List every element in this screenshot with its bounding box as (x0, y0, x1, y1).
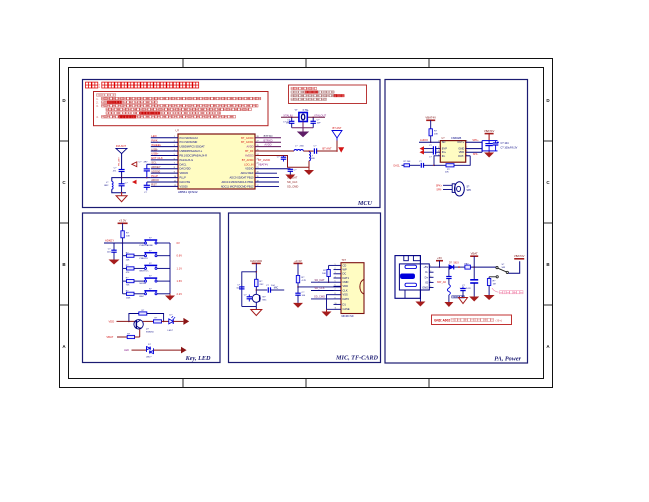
net SD_CMD tf (311, 295, 334, 299)
capacitor C-mic2 (244, 294, 252, 301)
no-erc inp (420, 150, 425, 155)
svg-text:VDD33: VDD33 (180, 171, 189, 175)
wire LDO cap (255, 168, 290, 171)
resistor R-vbat (127, 329, 140, 338)
wire mic out2 (271, 287, 285, 290)
svg-text:0V: 0V (177, 241, 180, 245)
svg-text:BTRXD: BTRXD (263, 138, 272, 142)
wire to BT antenna (317, 141, 338, 152)
svg-text:OUT+: OUT+ (457, 140, 464, 144)
svg-text:15P: 15P (317, 123, 321, 125)
svg-text:BTTXD: BTTXD (264, 134, 273, 138)
svg-text:SD_CLK: SD_CLK (287, 180, 298, 184)
tf pins (334, 263, 350, 311)
svg-text:PLAY PAUSE: PLAY PAUSE (140, 244, 154, 247)
svg-text:1: 1 (174, 136, 175, 138)
svg-text:MCU: MCU (357, 200, 373, 207)
svg-text:LED?: LED? (146, 356, 152, 358)
svg-text:CASE: CASE (343, 307, 350, 311)
capacitor C-in (419, 161, 424, 168)
svg-text:CS8002B: CS8002B (451, 137, 462, 140)
svg-text:PB.1/SDC3/PA5/AUX-R: PB.1/SDC3/PA5/AUX-R (180, 153, 208, 157)
svg-text:9: 9 (335, 297, 336, 299)
base loop resistor (129, 310, 164, 322)
svg-text:12: 12 (174, 185, 176, 187)
svg-text:USBDM/PC5 SD/DAT: USBDM/PC5 SD/DAT (180, 145, 206, 149)
key switch S1 row (123, 238, 180, 248)
svg-text:PC3 SD/SCLK2: PC3 SD/SCLK2 (180, 136, 199, 140)
svg-text:1.6V: 1.6V (177, 279, 183, 283)
ground ldo (285, 175, 295, 180)
svg-text:MIC: MIC (274, 287, 279, 290)
svg-text:11: 11 (335, 308, 337, 310)
wire out gnd rail (466, 142, 482, 152)
svg-text:MIC, TF-CARD: MIC, TF-CARD (335, 355, 378, 362)
svg-text:REC: REC (140, 296, 145, 298)
net VBAT q (106, 335, 127, 339)
capacitor C-micout (266, 285, 275, 293)
svg-text:5: 5 (174, 154, 175, 156)
wire fm main (121, 177, 151, 179)
svg-text:BAT_AD: BAT_AD (437, 281, 446, 284)
resistor R-adkey (121, 231, 131, 238)
svg-text:22K: 22K (126, 259, 130, 261)
svg-text:TF?: TF? (342, 258, 347, 262)
note title text (86, 82, 199, 89)
section box MIC TF-CARD (229, 213, 381, 363)
net XTALOUT (308, 113, 327, 118)
net pa in (394, 164, 405, 167)
svg-text:BT_GIO01: BT_GIO01 (241, 140, 254, 144)
ground key bus (165, 294, 175, 301)
wire out+ spk (466, 139, 482, 142)
svg-text:4: 4 (335, 276, 336, 278)
key switch S2 row (123, 250, 183, 261)
svg-text:SPK+: SPK+ (436, 184, 443, 187)
svg-text:DACL: DACL (180, 162, 187, 166)
wire mic left rail (242, 272, 256, 307)
svg-text:110K: 110K (126, 297, 131, 299)
resistor R-cd (322, 270, 330, 277)
svg-text:2.: 2. (96, 100, 98, 104)
svg-text:5819: 5819 (454, 262, 460, 264)
net LED label (124, 349, 146, 352)
wire fm loop2 (112, 189, 126, 193)
svg-text:XTALIN: XTALIN (283, 113, 292, 117)
inductor L1 (294, 146, 304, 151)
svg-text:( B+): ( B+) (496, 319, 503, 323)
note box BT (289, 85, 367, 104)
svg-text:NEXT/V+: NEXT/V+ (140, 271, 150, 273)
svg-text:X,TAL: X,TAL (303, 109, 310, 112)
resistor R-tf (296, 276, 306, 283)
svg-text:20K: 20K (445, 172, 449, 174)
svg-text:6: 6 (174, 158, 175, 160)
ground mic (251, 310, 262, 316)
capacitor C-xtal2 (311, 117, 322, 128)
svg-text:SD_DAT: SD_DAT (287, 176, 298, 180)
wire 3v3 down (297, 263, 299, 275)
svg-text:BT_RF: BT_RF (245, 149, 254, 153)
wire AVSS (255, 155, 309, 167)
wire tf gnd (327, 295, 334, 312)
tf part name (342, 315, 354, 318)
svg-text:XTALOUT: XTALOUT (314, 113, 327, 117)
svg-text:SPK-: SPK- (436, 189, 442, 192)
wire pa sd (430, 136, 432, 143)
ground fuse (444, 295, 453, 307)
svg-text:20K: 20K (434, 134, 438, 136)
svg-text:8: 8 (174, 167, 175, 169)
wire led out (173, 320, 183, 322)
svg-text:MODE: MODE (140, 283, 147, 285)
svg-text:ADC13 MICN/SDCLK PB11: ADC13 MICN/SDCLK PB11 (222, 180, 255, 184)
port arrow led2 (181, 347, 187, 354)
ground hollow usb (459, 298, 468, 304)
wire vbat stem (473, 256, 475, 267)
net XTALIN (281, 113, 299, 118)
svg-text:USBDP/PA4/AUX-L: USBDP/PA4/AUX-L (180, 149, 203, 153)
wire 5v (434, 261, 449, 268)
svg-text::: : (98, 84, 100, 90)
svg-text:10K: 10K (322, 273, 326, 275)
svg-text:ADC11 MICP/SDCMD PB12: ADC11 MICP/SDCMD PB12 (221, 184, 254, 188)
ferrite FB1 (465, 263, 471, 269)
svg-text:11: 11 (174, 180, 176, 182)
svg-text:VDD: VDD (109, 320, 115, 324)
svg-text:LED?: LED? (168, 330, 174, 332)
svg-text:WP: WP (343, 268, 347, 272)
svg-text:DACVDD: DACVDD (250, 259, 262, 263)
wire key bus left (122, 243, 124, 294)
svg-text:GND: GND (422, 286, 428, 290)
led pair D2 (146, 344, 154, 359)
svg-text:VBAT4V: VBAT4V (484, 129, 495, 133)
svg-text:AVDD: AVDD (246, 145, 253, 149)
net ADKEY (104, 239, 123, 243)
mcu U1 designator (176, 128, 180, 132)
ground tf (322, 312, 332, 317)
svg-text:+5V: +5V (437, 256, 442, 260)
wire audio in (419, 139, 440, 142)
net label BT ANT (322, 147, 332, 151)
svg-text:PA, Power: PA, Power (494, 356, 521, 363)
svg-text:PWK: PWK (151, 138, 158, 142)
svg-text:BT_AVDD: BT_AVDD (242, 158, 254, 162)
svg-text:ADKEY: ADKEY (151, 165, 161, 169)
svg-text:D1: D1 (343, 302, 347, 306)
cap vbat labels (460, 285, 472, 290)
wire led pair out (154, 349, 182, 351)
wire out- spk (466, 153, 479, 156)
svg-text:2: 2 (335, 268, 336, 270)
svg-text:CMD: CMD (343, 280, 349, 284)
svg-text:3.: 3. (96, 104, 98, 108)
svg-text:VDD: VDD (459, 150, 465, 154)
svg-text:FM_ANT: FM_ANT (118, 157, 121, 166)
svg-text:3: 3 (174, 145, 175, 147)
power DACVDD (250, 259, 262, 264)
svg-text:GND:: GND: (434, 319, 442, 323)
svg-text:AVDD3: AVDD3 (245, 153, 254, 157)
crystal Y1 labels (295, 109, 310, 112)
antenna FM (116, 148, 127, 169)
svg-text:5: 5 (335, 281, 336, 283)
svg-text:4.7K: 4.7K (302, 280, 307, 282)
svg-text:IN-: IN- (442, 154, 446, 158)
svg-text:VBAT4V: VBAT4V (425, 116, 436, 120)
usb pin contacts (401, 265, 417, 286)
wire BT_RF (255, 150, 294, 152)
net FM ANT (116, 144, 127, 148)
wire mic bottom (242, 302, 256, 309)
svg-text:7: 7 (174, 163, 175, 165)
resistor R-batdet (487, 279, 496, 296)
svg-text:MICRO SD: MICRO SD (342, 315, 354, 318)
capacitor C-fm2 (139, 162, 150, 178)
svg-text:PC4 SD/SCMD: PC4 SD/SCMD (180, 140, 198, 144)
svg-text:ADC9 SD/DAT PB10: ADC9 SD/DAT PB10 (230, 176, 255, 180)
wire fm row11 (147, 181, 151, 183)
wire res-junction (122, 238, 124, 244)
svg-text:2: 2 (430, 271, 431, 273)
svg-text:1: 1 (335, 264, 336, 266)
svg-text:SD_CMD: SD_CMD (314, 295, 325, 299)
power VBAT4V pa2 (484, 129, 495, 134)
capacitor C-xtal1 (286, 117, 294, 128)
svg-text:LDO_IN: LDO_IN (244, 162, 253, 166)
no-erc byp (420, 146, 425, 151)
ground fm (116, 193, 127, 202)
svg-text:FM ANT: FM ANT (116, 144, 127, 148)
svg-text:1M: 1M (493, 284, 496, 286)
svg-text:BT_AVDD: BT_AVDD (258, 158, 270, 162)
svg-text:BT ANT: BT ANT (332, 126, 341, 130)
usb pin stubs (422, 265, 433, 289)
section label MIC TF-CARD (335, 355, 378, 362)
resistor R-led (143, 317, 169, 323)
wire fb-sw (470, 266, 496, 268)
svg-text:ADC0: ADC0 (151, 178, 159, 182)
wire in series (410, 164, 421, 166)
svg-text:GND: GND (458, 147, 464, 151)
net SD_CLK tf (311, 286, 334, 290)
svg-text:SD_CMD: SD_CMD (287, 184, 298, 188)
capacitor C-rf series (314, 146, 318, 154)
svg-text:1.1V: 1.1V (177, 266, 183, 270)
svg-text:10: 10 (335, 303, 337, 305)
svg-text:15P: 15P (286, 123, 290, 125)
usb J2 outer (395, 256, 420, 299)
svg-text:1.: 1. (96, 97, 98, 101)
svg-text:VDD: VDD (343, 284, 349, 288)
capacitor C-vbat big (470, 267, 478, 296)
capacitor C-pa2 (493, 141, 499, 151)
ground pa caps (484, 153, 494, 158)
pa U2 pin names (438, 140, 467, 158)
capacitor C-adkey (107, 243, 117, 260)
svg-text:10: 10 (174, 176, 176, 178)
speaker wires (436, 184, 452, 191)
wire net AVDD (255, 143, 281, 147)
svg-text:75K: 75K (126, 285, 130, 287)
section label Key LED (185, 355, 211, 362)
antenna BT (332, 126, 342, 141)
section label PA Power (494, 356, 521, 363)
pa cap labels (501, 142, 518, 149)
tf designator (342, 258, 347, 262)
inductor L2 shunt (309, 152, 315, 161)
svg-text:IN+: IN+ (442, 150, 447, 154)
wire sw to flag (508, 261, 519, 273)
svg-text:AVDD: AVDD (264, 143, 271, 147)
wire key bus right (169, 243, 171, 294)
svg-text:OUT-: OUT- (458, 154, 464, 158)
wire fm loop (112, 178, 122, 182)
svg-text:MIC: MIC (263, 299, 267, 301)
svg-text:2: 2 (174, 141, 175, 143)
svg-text:7: 7 (335, 289, 336, 291)
svg-text:DACVDD: DACVDD (180, 167, 191, 171)
mcu U1 pins and labels (151, 134, 259, 188)
capacitor C-tf (295, 287, 306, 303)
speaker SP1 (452, 182, 471, 196)
svg-text:WHEEL: WHEEL (151, 143, 161, 147)
svg-text:VBAT4V: VBAT4V (258, 162, 268, 166)
capacitor C-inp (424, 150, 440, 159)
svg-text:SPK+: SPK+ (472, 139, 479, 142)
svg-text:A602: A602 (443, 319, 451, 323)
svg-text:+3.3V: +3.3V (294, 259, 302, 263)
wire net BTTXD (255, 134, 281, 138)
capacitor C-pa1 (485, 141, 493, 151)
svg-text:SD_DAT: SD_DAT (314, 278, 324, 282)
svg-text:4: 4 (174, 149, 175, 151)
wire adc-ref (255, 172, 277, 174)
svg-text:VSS: VSS (343, 293, 348, 297)
svg-text:RST: RST (151, 183, 157, 187)
svg-text:ADC2 REF: ADC2 REF (241, 171, 254, 175)
svg-text:SCL: SCL (151, 161, 157, 165)
svg-text:DC: DC (343, 272, 347, 276)
wire pa pwr (430, 120, 432, 129)
pa U2 body (440, 141, 465, 163)
power VBAT flag (470, 252, 478, 257)
svg-text:D+: D+ (425, 275, 429, 279)
svg-text:VDDIO: VDDIO (245, 167, 253, 171)
usb shell ground (405, 290, 425, 307)
svg-text:AUDIO: AUDIO (420, 139, 428, 142)
led LED1 (168, 314, 176, 331)
svg-text:USB-: USB- (151, 147, 158, 151)
net VBAT4V (258, 162, 268, 166)
wire in to pin (424, 156, 441, 166)
no-erc marker (338, 147, 344, 152)
svg-text:BT ANT: BT ANT (322, 147, 332, 151)
mcu U1 part name (178, 190, 198, 194)
wire mic out (256, 289, 267, 291)
svg-text:R? 20K: R? 20K (404, 161, 412, 163)
net BT_AVDD (258, 158, 270, 162)
svg-text:1: 1 (438, 141, 439, 143)
svg-text:47K: 47K (126, 272, 130, 274)
resistor R-fb (434, 156, 470, 174)
key switch S3 row (123, 263, 183, 274)
wire dacvdd down (255, 263, 257, 279)
key switch S4 row (123, 276, 183, 287)
svg-text:AB561 QFN32: AB561 QFN32 (178, 190, 198, 194)
svg-text:0.6V: 0.6V (177, 254, 183, 258)
wire pwr-res (122, 223, 124, 231)
battery annotation (492, 288, 523, 294)
pa U2 labels (442, 137, 462, 140)
svg-text:C? 100uF/6.3V: C? 100uF/6.3V (501, 146, 518, 149)
no-erc fm1 (132, 162, 137, 167)
wire mic node (255, 287, 257, 295)
switch S-pwr (496, 264, 509, 278)
section box PA Power (385, 80, 528, 364)
note box battery (432, 315, 512, 325)
capacitor C-byp (424, 145, 440, 151)
wire net BTRXD (255, 138, 281, 142)
port arrow led (183, 318, 189, 325)
svg-text:SS8050: SS8050 (146, 332, 155, 334)
power +3.3V key (118, 219, 128, 224)
svg-text:DAT1: DAT1 (343, 276, 350, 280)
svg-text:LED: LED (151, 134, 156, 138)
capacitor C-avss (277, 155, 286, 161)
svg-text:SD_CLK: SD_CLK (314, 286, 324, 290)
capacitor C-mic1 (236, 284, 244, 289)
tf connector J1 body (341, 263, 364, 314)
svg-text:USB+: USB+ (151, 152, 159, 156)
svg-text:Key, LED: Key, LED (185, 355, 211, 362)
no-erc fm2 (132, 180, 137, 185)
mcu U1 body (178, 134, 255, 189)
microphone M1 (252, 294, 267, 302)
tf pullup rail (329, 265, 334, 269)
svg-text:1: 1 (430, 266, 431, 268)
section label MCU (357, 200, 373, 207)
svg-text:U?: U? (176, 128, 180, 132)
svg-text:PLLP: PLLP (151, 174, 158, 178)
wire tf vdd (297, 283, 341, 288)
svg-text:4.: 4. (96, 115, 98, 119)
ground tf-cap (293, 303, 303, 308)
ground adkey (109, 260, 120, 265)
svg-text:SPK: SPK (467, 190, 472, 192)
svg-text:SPK-: SPK- (473, 153, 479, 156)
net SD_DAT (255, 176, 298, 180)
ground batdet (484, 295, 495, 300)
net VDD q (109, 320, 137, 324)
resistor R-pa-sd (429, 129, 438, 136)
resistor R-mic (255, 279, 265, 286)
svg-text:10N: 10N (311, 158, 315, 160)
svg-text:9: 9 (174, 172, 175, 174)
ground vbat cap (469, 297, 479, 302)
svg-text:8: 8 (335, 293, 336, 295)
svg-text:4: 4 (430, 281, 431, 283)
svg-text:CLK: CLK (343, 288, 348, 292)
svg-text:VBAT: VBAT (471, 252, 478, 256)
svg-text:3: 3 (430, 276, 431, 278)
svg-text:5: 5 (430, 286, 431, 288)
svg-text:ADKEY: ADKEY (105, 239, 114, 243)
capacitor C-fm3 (144, 182, 150, 194)
label c104 (283, 122, 291, 124)
svg-text:DACVSS: DACVSS (180, 180, 191, 184)
